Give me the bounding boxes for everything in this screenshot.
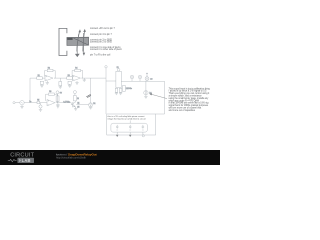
supply node (56, 91, 59, 94)
pin down 3 (142, 132, 144, 134)
resistor R2 (47, 69, 53, 71)
relay coil box K1 (116, 71, 121, 87)
slab (coil body) (67, 37, 89, 45)
flux arrow down 1 (wide head) (77, 34, 79, 55)
capacitor C2 to gnd (56, 103, 59, 109)
sketch annotation text (90, 27, 123, 56)
svg-text:Q1: Q1 (77, 102, 79, 104)
lamp node out (145, 77, 149, 81)
tiny pin labels (116, 129, 144, 131)
riser wire to top row (30, 78, 37, 103)
wire (15, 102, 20, 104)
feedback wire (45, 71, 56, 79)
emitter ground (74, 109, 77, 111)
svg-text:connect pin 4 to pin 7: connect pin 4 to pin 7 (90, 33, 113, 36)
svg-text:connect it to other side of pi: connect it to other side of piezo (90, 48, 123, 51)
shunt box (68, 81, 71, 84)
bracket clamp (59, 28, 67, 55)
flux arrow up 1 (77, 31, 80, 51)
ground under opamp (46, 81, 49, 84)
bus wire (105, 68, 107, 114)
svg-text:1k: 1k (77, 98, 79, 100)
supply node P1 (130, 75, 133, 78)
annotation arrow (151, 94, 167, 98)
wire transistor to LED (76, 104, 88, 106)
svg-text:12Vdc: 12Vdc (126, 88, 133, 90)
svg-text:R6: R6 (49, 91, 51, 93)
svg-text:R4: R4 (75, 68, 77, 70)
wire into box top (156, 113, 165, 115)
op-amp U2 (73, 75, 81, 81)
small ground on output (83, 78, 86, 82)
transistor Q1 (71, 103, 73, 105)
resistor R1 (37, 77, 43, 80)
right note text block (169, 87, 211, 112)
resistor R6 (49, 93, 55, 95)
flux arrow down 2 (82, 33, 84, 53)
svg-text:relays the lead to an amid ele: relays the lead to an amid electric circ… (108, 117, 146, 120)
wire out stage2 (82, 77, 107, 79)
contact 2 (129, 125, 131, 129)
coupling cap (59, 78, 61, 81)
svg-text:http://circuitlab.com/c5vdk: http://circuitlab.com/c5vdk (56, 156, 87, 160)
rail 2 (121, 80, 164, 82)
flux arrow up 2 (83, 31, 85, 52)
feedback wire (72, 71, 83, 79)
supply node 2 (73, 91, 76, 94)
slab dark label (67, 38, 72, 40)
series resistor R5 (37, 101, 40, 103)
svg-text:connect pin 2 to GND: connect pin 2 to GND (90, 41, 112, 44)
rail to coil (106, 80, 116, 82)
input terminal (13, 102, 15, 104)
resistor R4 (75, 69, 81, 71)
svg-text:R5: R5 (37, 100, 39, 102)
supply node P2 (138, 75, 141, 78)
ground under V1 (20, 105, 24, 109)
logo LAB pill (17, 158, 34, 163)
svg-text:R1: R1 (38, 75, 40, 77)
svg-text:pin 7 to R to the coil: pin 7 to R to the coil (90, 53, 111, 56)
wire (42, 77, 45, 79)
resistor R8 (73, 96, 76, 101)
label mark (86, 94, 91, 97)
resistor R7 (56, 96, 59, 102)
svg-text:R3: R3 (68, 75, 70, 77)
svg-text:D1: D1 (93, 103, 95, 105)
contact 1 (116, 125, 118, 129)
plus flag (146, 73, 148, 77)
feedback wire (46, 94, 58, 103)
svg-text:connect +9V out to pin 7: connect +9V out to pin 7 (90, 27, 116, 30)
resistor pair under coil (115, 88, 118, 92)
wire to notebox (164, 81, 166, 114)
wire out stage1 (54, 77, 67, 79)
svg-text:R2: R2 (48, 68, 50, 70)
wire to middle stage (24, 102, 37, 104)
svg-text:and more out of capacities: and more out of capacities (169, 109, 196, 112)
third box (122, 86, 125, 92)
bias source (40, 103, 42, 105)
LED D1 (89, 103, 93, 107)
shunt box (40, 81, 43, 84)
wire out (56, 102, 72, 104)
pin up (129, 120, 131, 123)
svg-text:K1: K1 (117, 67, 119, 69)
contact 3 (142, 125, 144, 129)
pin down 2 (129, 132, 131, 134)
rounded module (111, 123, 147, 132)
ground under opamp2 (75, 81, 78, 84)
relay note box (107, 114, 165, 137)
pin down 1 (116, 132, 118, 134)
op-amp U1 (45, 75, 53, 81)
diode D2 (145, 81, 147, 90)
source V1 (20, 101, 24, 105)
op-amp U3 (47, 100, 55, 106)
resistor R3 (67, 77, 73, 80)
ground (144, 95, 147, 98)
ground (40, 84, 43, 87)
logo zigzag (8, 159, 17, 161)
svg-text:0.7Vdc: 0.7Vdc (63, 101, 71, 103)
bus node (105, 66, 107, 68)
svg-text:LAB: LAB (22, 158, 31, 163)
ground (89, 107, 92, 109)
slab diagonal (74, 38, 89, 45)
